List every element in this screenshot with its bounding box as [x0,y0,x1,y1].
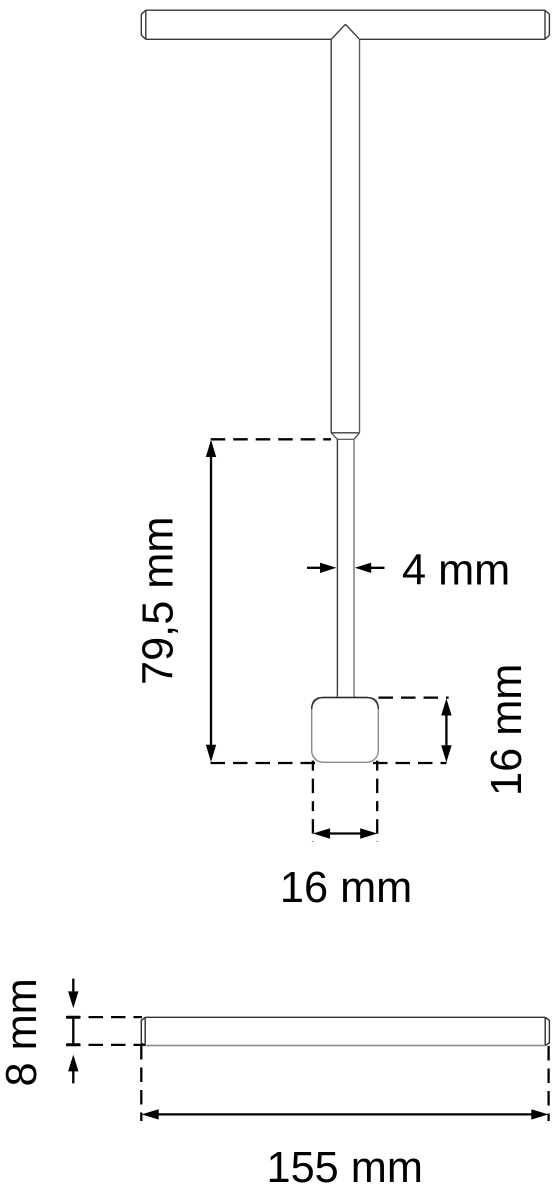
dimension 8 mm: dashed extension bottom [66,1044,145,1046]
dimension 79,5 mm: bottom arrowhead [206,745,216,762]
dashed extension line at block bottom, left segment (y=762) [211,762,316,764]
top view: horizontal rail bar outline [141,10,549,39]
dimension 155 mm: right arrowhead [531,1109,548,1119]
svg-text:79,5 mm: 79,5 mm [134,517,182,685]
dimension 8 mm: lower arrow pointing up [72,1069,74,1083]
dimension 79,5 mm: vertical line [210,454,212,748]
side view: rail bar bottom edge (grey) [145,1045,545,1047]
svg-text:16 mm: 16 mm [280,864,412,912]
dimension 8 mm: dashed extension top [66,1016,142,1018]
dimension 4 mm: right arrow [368,567,385,569]
dimension 79,5 mm: top arrowhead [206,440,216,457]
dashed extension below block left (x=313) [312,761,314,842]
dashed extension below bar right end [547,1046,549,1121]
svg-text:4 mm: 4 mm [402,546,510,594]
stem tube right edge [359,39,361,433]
dimension 8 mm: upper arrow pointing down [72,979,74,995]
dashed extension below bar left end [140,1045,142,1121]
rod right edge [353,439,355,695]
tube-to-rod taper [331,433,359,440]
side view: rail bar outline [141,1017,549,1045]
dimension 155 mm: left arrowhead [142,1109,159,1119]
dashed extension line at rod top (y=439) [211,438,331,440]
dashed extension below block right (x=377) [376,761,378,842]
svg-text:16 mm: 16 mm [483,664,531,796]
connector block (rounded square) [312,698,379,763]
dimension 8 mm: tick bar between extension lines [72,1017,74,1045]
dimension 16 mm right: double arrow [445,712,447,749]
dimension 155 mm: line [156,1113,534,1115]
svg-text:155 mm: 155 mm [267,1144,423,1192]
dimension 16 mm bottom: double arrow [327,832,363,834]
stem tube bottom shoulder [331,432,359,434]
stem tube pointed top [331,25,359,40]
dashed extension line at block top right (y=698) [379,696,449,698]
rod left edge [336,439,338,695]
dashed extension line at block bottom, right segment (y=762) [373,762,447,764]
rod-block junction flare [337,696,355,701]
svg-text:8 mm: 8 mm [0,978,46,1086]
stem tube left edge [330,39,332,433]
dimension 4 mm: left arrow [307,567,323,569]
connector block top edge highlight [312,698,379,710]
